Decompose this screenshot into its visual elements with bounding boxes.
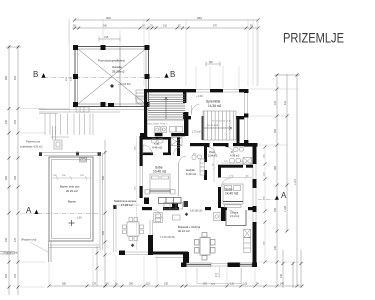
- service zone south wall: [140, 112, 188, 136]
- svg-text:225: 225: [14, 119, 17, 124]
- svg-text:125: 125: [243, 283, 248, 286]
- svg-text:10,46 m2: 10,46 m2: [153, 170, 167, 174]
- bottom window frame right: [240, 263, 252, 266]
- svg-text:230: 230: [164, 283, 169, 286]
- closet hall: [200, 159, 205, 175]
- ostava walls: [226, 210, 246, 226]
- garage corner stair: [136, 90, 145, 103]
- svg-text:300: 300: [274, 128, 277, 133]
- right wall windows: [253, 164, 256, 222]
- left wall upper (stairs block): [144, 92, 147, 137]
- svg-text:(Potporni zid): (Potporni zid): [21, 238, 37, 242]
- svg-text:350: 350: [62, 283, 67, 286]
- terrace corner posts: [113, 205, 117, 209]
- svg-text:B: B: [170, 70, 175, 79]
- kitchen unit left: [154, 213, 163, 223]
- right dimension chains: [274, 74, 300, 286]
- small dim above spremiste: [206, 62, 220, 67]
- door arc living west: [153, 210, 162, 219]
- extension lines light: [20, 19, 299, 287]
- right wall lower: [253, 146, 257, 267]
- svg-text:780: 780: [14, 175, 17, 180]
- pool depth marker: [69, 216, 83, 227]
- jog wall y143 right: [244, 143, 258, 147]
- section A-A markers: [26, 191, 287, 215]
- pool basin: [49, 157, 93, 241]
- svg-text:Pomoćna građevina: Pomoćna građevina: [98, 59, 125, 63]
- garage corner posts: [73, 45, 150, 107]
- deck bottom lines: [48, 245, 100, 248]
- jog wall at y136: [140, 136, 148, 139]
- svg-text:0,00 (96,30): 0,00 (96,30): [190, 211, 203, 213]
- svg-text:- 1,50: - 1,50: [75, 216, 82, 220]
- interior wall band y143: [190, 119, 253, 146]
- kup door arc: [143, 145, 152, 154]
- bottom window frame left: [187, 263, 212, 266]
- pump room square: [51, 126, 69, 149]
- svg-text:200: 200: [129, 283, 134, 286]
- interior hall dim line: [213, 148, 215, 182]
- svg-text:405: 405: [280, 273, 283, 278]
- svg-text:6,40 m2: 6,40 m2: [186, 172, 197, 176]
- svg-text:605: 605: [102, 175, 105, 180]
- pool internal dim: [52, 176, 91, 180]
- dim chain between pool and house: [104, 140, 106, 286]
- pool wall stub below: [49, 241, 52, 262]
- svg-text:465: 465: [274, 207, 277, 212]
- garage left rotated dim labels: [66, 77, 73, 81]
- svg-text:1.110: 1.110: [294, 179, 297, 185]
- svg-text:10 11 12 13 14 15 16: 10 11 12 13 14 15 16: [212, 121, 232, 123]
- svg-text:± 0,00 (96,30): ± 0,00 (96,30): [160, 236, 175, 239]
- wc fixtures: [230, 148, 252, 165]
- svg-text:4,38 m2: 4,38 m2: [230, 154, 240, 158]
- bottom thin segment: [211, 264, 228, 267]
- small steps at garage bottom left: [76, 107, 89, 112]
- svg-text:VC: VC: [193, 154, 196, 156]
- potporni zid text + leader: [2, 238, 48, 255]
- top wall of house: [144, 89, 249, 92]
- appliances in service zone: [155, 127, 183, 133]
- svg-text:130: 130: [230, 283, 235, 286]
- stairs arrow: [165, 97, 168, 119]
- window left wall: [140, 166, 142, 186]
- svg-text:PRIZEMLJE: PRIZEMLJE: [283, 30, 344, 46]
- svg-text:Bazen: Bazen: [68, 200, 76, 204]
- level diamond living: [185, 213, 189, 217]
- terrace table: [123, 218, 144, 241]
- misc small dims above right bedroom: [221, 162, 252, 164]
- left outside ext line: [136, 136, 138, 250]
- service zone below stairs: [147, 119, 186, 121]
- kitchen counter top row: [164, 203, 183, 210]
- svg-text:A: A: [26, 206, 32, 215]
- marker B right: [164, 73, 168, 78]
- svg-text:250: 250: [5, 273, 8, 278]
- living west wall thin part: [150, 220, 153, 235]
- svg-text:640: 640: [14, 75, 17, 80]
- vc fixtures: [192, 155, 202, 160]
- garage roof diagonals: [76, 47, 149, 106]
- kitchen tall cabinets right: [244, 229, 251, 252]
- bed left bedroom: [145, 174, 175, 194]
- interior dim right bedroom: [222, 176, 252, 179]
- svg-text:14,36 m2: 14,36 m2: [208, 104, 222, 108]
- door arc bedroom right: [222, 178, 231, 187]
- pool skimmer box: [80, 158, 87, 163]
- svg-text:4,46 m2: 4,46 m2: [152, 146, 163, 150]
- closet row left bedroom: [159, 198, 182, 204]
- svg-text:A: A: [281, 191, 287, 200]
- svg-text:560: 560: [103, 25, 108, 28]
- hall walls vertical: [204, 146, 253, 208]
- svg-text:490: 490: [5, 237, 8, 242]
- door arc hall to left bedroom: [179, 156, 187, 165]
- terrace level diamond: [131, 244, 135, 248]
- svg-text:345: 345: [280, 283, 285, 286]
- svg-text:26,25 m2: 26,25 m2: [66, 189, 78, 193]
- bottom wall terrace segment: [119, 235, 188, 255]
- svg-text:900: 900: [106, 16, 111, 20]
- line below garage: [39, 110, 149, 135]
- svg-text:Garaža: Garaža: [112, 65, 122, 69]
- svg-text:115: 115: [146, 283, 150, 286]
- garage elevation diamond: [110, 84, 114, 88]
- svg-text:Bazen neto pov.: Bazen neto pov.: [60, 185, 80, 189]
- svg-text:570: 570: [213, 25, 218, 28]
- garage left extension line: [68, 19, 70, 112]
- deck post: [39, 152, 42, 156]
- svg-text:40,10 m2: 40,10 m2: [178, 229, 190, 233]
- left wall main block: [140, 136, 143, 198]
- svg-text:16×17,5/28 · POS 1: 16×17,5/28 · POS 1: [148, 123, 168, 126]
- garage texts: [98, 59, 131, 87]
- svg-text:315: 315: [104, 35, 109, 39]
- terrace outline below living: [197, 267, 241, 284]
- ostava door arc: [229, 210, 236, 217]
- bottom dimension chain: [49, 285, 302, 287]
- kitchen island: [173, 215, 181, 220]
- bed right bedroom: [223, 184, 243, 207]
- terrace left edge: [114, 205, 141, 252]
- dim chain pool bottom right: [96, 246, 98, 286]
- svg-text:1,72 m2: 1,72 m2: [192, 131, 201, 134]
- svg-text:14,40 m2: 14,40 m2: [225, 191, 239, 195]
- small dim above garage 315: [99, 37, 120, 42]
- pool deck top edge: [39, 153, 103, 251]
- top wall windows: [196, 90, 239, 93]
- svg-text:210: 210: [163, 25, 168, 28]
- svg-text:960: 960: [197, 16, 202, 20]
- spremiste inner walls: [183, 92, 244, 119]
- left wall bottom corner piece: [144, 198, 149, 205]
- left dimension chain lines: [6, 45, 21, 295]
- external stairs (hatch): [148, 95, 185, 119]
- svg-text:290: 290: [102, 230, 105, 235]
- left low wall line: [0, 252, 15, 255]
- top dimension chain 2: [72, 27, 258, 29]
- svg-text:17,28 m2: 17,28 m2: [121, 203, 133, 207]
- section B-B markers: [33, 70, 175, 79]
- svg-text:Priprema za: Priprema za: [26, 140, 41, 144]
- title PRIZEMLJE: [283, 30, 344, 46]
- bathroom fixtures kup: [152, 138, 183, 146]
- svg-text:800: 800: [5, 175, 8, 180]
- garage bottom wall black segment: [108, 103, 114, 107]
- steps below garage to pool deck: [39, 109, 93, 135]
- svg-text:16×17,5/28: 16×17,5/28: [207, 124, 219, 127]
- text priprema: [20, 140, 43, 149]
- svg-text:+ 0,00: + 0,00: [196, 95, 203, 98]
- living north wall: [142, 207, 179, 210]
- dining table: [195, 233, 216, 261]
- svg-text:170: 170: [92, 283, 97, 286]
- svg-text:405: 405: [274, 245, 277, 250]
- section line B dashed: [44, 77, 164, 79]
- svg-text:380: 380: [203, 283, 208, 286]
- door jambs middle band: [207, 143, 244, 168]
- svg-text:360: 360: [274, 165, 277, 170]
- bottom wall living room segment: [181, 252, 257, 267]
- svg-text:470: 470: [14, 237, 17, 242]
- svg-text:2,11 m2: 2,11 m2: [230, 214, 240, 218]
- svg-text:Pred.: Pred.: [209, 150, 215, 154]
- svg-text:29,38 m2: 29,38 m2: [112, 70, 125, 74]
- ext lines above top wall: [196, 66, 239, 88]
- right wall upper (spremiste, windows): [245, 92, 248, 143]
- pool texts: [60, 185, 80, 204]
- stove block: [214, 213, 221, 221]
- garage outer walls: [75, 47, 149, 107]
- svg-text:+ 0 (94,80): + 0 (94,80): [118, 82, 131, 86]
- bottom right vertical dims: [283, 250, 301, 288]
- kitchen pier: [221, 209, 226, 221]
- wall stubs south of left bedroom: [172, 204, 178, 208]
- door arcs middle band: [174, 147, 234, 155]
- interior right dim ticks: [264, 146, 267, 264]
- bedroom east partition: [178, 164, 180, 196]
- top dimension chain 1: [74, 19, 258, 21]
- svg-text:235: 235: [5, 119, 8, 124]
- svg-text:1.190: 1.190: [284, 205, 287, 212]
- bedroom right south wall: [205, 207, 256, 210]
- svg-text:310: 310: [274, 100, 277, 105]
- svg-text:810: 810: [284, 100, 287, 105]
- spremiste door arc: [191, 104, 199, 115]
- bathroom walls: [141, 137, 180, 156]
- internal stairs: [204, 111, 234, 140]
- svg-text:8|8: 8|8: [209, 60, 213, 64]
- svg-text:240: 240: [14, 273, 17, 278]
- svg-text:B: B: [33, 70, 38, 79]
- entrance door arc outside west wall: [136, 97, 145, 106]
- svg-text:smještanje 4,00 m2: smještanje 4,00 m2: [20, 145, 43, 149]
- svg-text:660: 660: [5, 75, 8, 80]
